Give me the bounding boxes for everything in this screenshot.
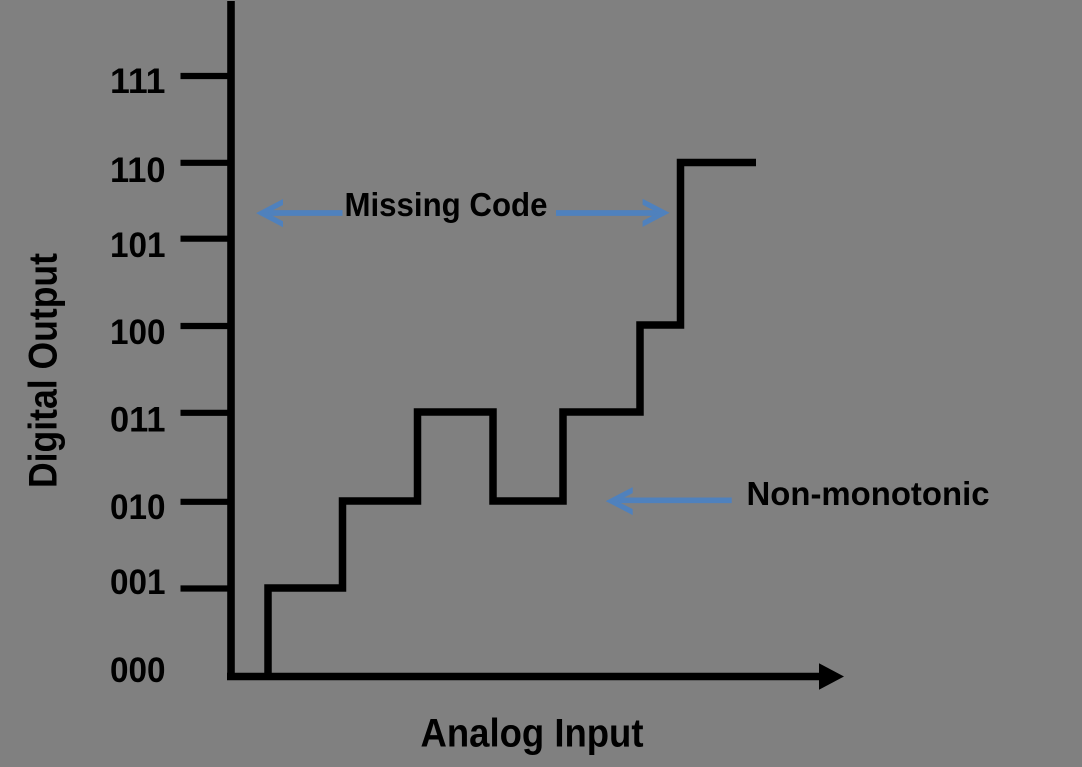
tick 011 [181,410,232,416]
missing-code right arrow shaft [556,210,664,216]
svg-text:000: 000 [110,650,166,690]
tick 111 [181,73,232,79]
tick 100 [181,323,232,329]
svg-text:010: 010 [110,487,166,527]
staircase transfer-function curve [268,163,756,681]
y-axis [227,1,235,680]
svg-text:111: 111 [110,61,166,101]
svg-text:100: 100 [110,312,166,352]
x-axis arrowhead [819,663,844,690]
non-monotonic arrowhead [606,487,633,515]
x-axis [227,673,821,681]
tick 001 [181,585,232,591]
tick 010 [181,499,232,505]
tick 110 [181,160,232,166]
missing-code left arrowhead [256,199,283,227]
svg-text:Analog Input: Analog Input [421,712,644,756]
missing-code right arrowhead [643,199,670,227]
svg-text:Non-monotonic: Non-monotonic [747,475,990,512]
svg-text:Missing Code: Missing Code [345,186,548,223]
tick 101 [181,236,232,242]
svg-text:011: 011 [110,400,166,440]
missing-code left arrow shaft [262,210,343,216]
svg-text:110: 110 [110,150,166,190]
non-monotonic arrow shaft [614,497,732,503]
svg-text:001: 001 [110,562,166,602]
svg-text:Digital Output: Digital Output [22,253,66,488]
svg-text:101: 101 [110,225,166,265]
